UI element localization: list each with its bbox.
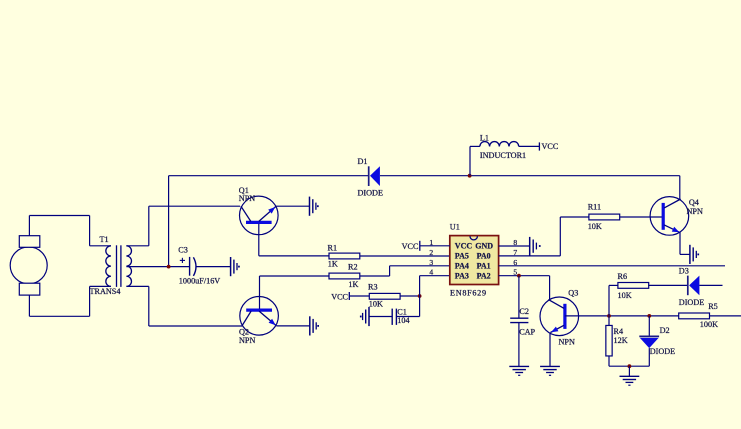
wire U1 pin 6 long line: [499, 265, 725, 267]
power VCC at L1: [539, 142, 558, 151]
transformer T1 TRANS4: [90, 235, 132, 296]
svg-text:Q4: Q4: [689, 198, 699, 207]
motor terminal block bottom: [19, 283, 40, 295]
wire R6 riser: [609, 285, 618, 316]
wire D2 bottom: [648, 348, 650, 366]
svg-text:R2: R2: [348, 262, 358, 271]
transistor Q2 NPN: [239, 276, 278, 345]
wire T1 secondary top to Q1 base line: [126, 206, 240, 246]
svg-text:3: 3: [429, 258, 433, 267]
svg-text:NPN: NPN: [559, 338, 575, 347]
ground earth-style at Q3 emitter: [540, 366, 560, 375]
svg-text:R6: R6: [618, 272, 628, 281]
svg-text:R4: R4: [614, 327, 624, 336]
svg-text:12K: 12K: [614, 336, 628, 345]
IC U1 EN8F629 body: [450, 223, 499, 298]
wire R4 bottom: [609, 356, 649, 366]
svg-text:R11: R11: [588, 203, 601, 212]
wire Q1 base lead to R1: [259, 255, 329, 257]
ground bar-style at U1 pin 8: [530, 237, 541, 256]
svg-text:GND: GND: [475, 242, 493, 251]
wire D2 top: [648, 316, 650, 336]
wire C1 to ground: [369, 316, 392, 318]
wire top rail right of D1: [380, 175, 680, 177]
wire junction riser to U1 pin 4: [420, 276, 450, 296]
wire Q4 emitter to ground: [680, 232, 690, 254]
svg-text:R5: R5: [708, 302, 718, 311]
svg-text:T1: T1: [100, 235, 109, 244]
node L1 junction on top rail: [468, 174, 472, 178]
svg-text:NPN: NPN: [239, 336, 255, 345]
capacitor C3 1000uF/16V: [178, 246, 220, 286]
transistor Q3 NPN: [540, 289, 579, 347]
wire R6 to D3: [648, 284, 688, 286]
wire top rail horizontal: [169, 175, 369, 177]
wire motor bottom to T1 primary bottom: [29, 286, 111, 316]
svg-text:1K: 1K: [348, 280, 358, 289]
diode D3: [679, 267, 704, 308]
svg-text:D1: D1: [358, 157, 368, 166]
svg-text:DIODE: DIODE: [650, 347, 675, 356]
svg-text:PA2: PA2: [477, 271, 491, 280]
svg-text:D2: D2: [660, 326, 670, 335]
node PA2/C2 junction: [517, 274, 521, 278]
node ground tap: [628, 364, 632, 368]
ground bar-style at Q2 emitter: [310, 316, 319, 335]
wire Q3 emitter to ground: [549, 333, 551, 367]
wire top rail riser: [168, 176, 170, 267]
svg-text:VCC: VCC: [402, 242, 419, 251]
wire junction down to C2: [518, 276, 520, 319]
wire R3 to junction: [400, 295, 420, 297]
svg-text:VCC: VCC: [455, 242, 473, 251]
svg-text:U1: U1: [450, 223, 460, 232]
svg-text:NPN: NPN: [687, 207, 703, 216]
ground bar-style at C3: [231, 257, 240, 276]
svg-text:NPN: NPN: [239, 194, 255, 203]
node D2 tap: [647, 314, 651, 318]
svg-text:VCC: VCC: [542, 142, 559, 151]
transistor Q4 NPN: [650, 197, 703, 236]
svg-text:DIODE: DIODE: [679, 298, 704, 307]
wire U1 pin 7 to R11 riser: [499, 217, 561, 256]
diode D1: [358, 157, 383, 197]
svg-text:10K: 10K: [618, 291, 632, 300]
motor M1 (load): [10, 247, 47, 284]
wire motor top to T1 primary top: [29, 216, 111, 246]
wire R5 right: [710, 315, 741, 317]
svg-text:R1: R1: [328, 243, 338, 252]
svg-text:CAP: CAP: [519, 327, 535, 336]
wire Q2 emitter to ground: [276, 325, 310, 327]
svg-text:PA4: PA4: [455, 262, 469, 271]
wire U1 pin 5 to Q3 collector riser: [499, 276, 550, 300]
svg-text:1000uF/16V: 1000uF/16V: [179, 276, 220, 285]
ground bar-style at C1 (left-facing): [360, 307, 369, 326]
wire junction down to C1: [396, 296, 419, 317]
wire Q2 base lead to R2: [260, 275, 330, 277]
ground bar-style at Q4 emitter: [690, 245, 699, 264]
svg-text:D3: D3: [679, 267, 689, 276]
svg-text:100K: 100K: [700, 320, 718, 329]
svg-text:EN8F629: EN8F629: [450, 288, 487, 297]
IC U1 pin names: [455, 242, 494, 281]
svg-text:PA5: PA5: [455, 252, 469, 261]
resistor R3 10K: [368, 283, 400, 309]
svg-text:10K: 10K: [369, 299, 383, 308]
svg-text:L1: L1: [480, 133, 489, 142]
svg-text:INDUCTOR1: INDUCTOR1: [480, 151, 526, 160]
svg-text:4: 4: [429, 268, 433, 277]
svg-text:10K: 10K: [588, 222, 602, 231]
ground earth-style at C2: [509, 366, 529, 375]
node R3/C1/PA3 junction: [418, 294, 422, 298]
wire L1 left to top rail: [470, 146, 480, 175]
motor terminal block top: [19, 236, 40, 248]
resistor R5 100K: [679, 302, 718, 329]
wire R4 riser top: [608, 316, 610, 326]
svg-text:1K: 1K: [328, 259, 338, 268]
wire VCC to R3: [349, 295, 369, 297]
wire C2 to ground: [518, 323, 520, 367]
wire R1 to U1 pin 2: [360, 255, 450, 257]
wire R11 left: [560, 216, 589, 218]
svg-text:PA1: PA1: [477, 262, 491, 271]
capacitor C2 CAP: [510, 307, 535, 337]
resistor R1 1K: [328, 243, 360, 268]
resistor R11 10K: [588, 203, 620, 232]
power VCC at U1 pin 1: [402, 241, 420, 251]
svg-text:VCC: VCC: [331, 292, 348, 301]
wire Q4 collector to top rail: [679, 176, 681, 199]
svg-text:104: 104: [397, 316, 409, 325]
transistor Q1 NPN: [239, 186, 278, 256]
wire U1 pin 8 to ground: [499, 245, 530, 247]
inductor L1 INDUCTOR1: [480, 133, 526, 160]
svg-text:C3: C3: [178, 246, 188, 255]
wire D3 right: [699, 284, 722, 286]
wire Q1 emitter to ground: [276, 205, 310, 207]
svg-text:PA3: PA3: [455, 271, 469, 280]
svg-text:DIODE: DIODE: [358, 189, 383, 198]
svg-text:TRANS4: TRANS4: [90, 287, 121, 296]
ground bar-style at Q1 emitter: [310, 197, 319, 216]
wire R11 to Q4 base: [620, 216, 664, 218]
svg-text:R3: R3: [368, 283, 378, 292]
resistor R2 1K: [329, 262, 360, 289]
svg-text:C2: C2: [519, 307, 529, 316]
IC U1 pin numbers: [429, 238, 517, 277]
wire ground stem: [628, 366, 630, 376]
capacitor C1 104: [392, 308, 409, 325]
diode D2: [639, 326, 675, 356]
svg-text:2: 2: [429, 248, 433, 257]
resistor R6 10K: [618, 272, 649, 300]
svg-text:Q3: Q3: [568, 289, 578, 298]
svg-text:PA0: PA0: [477, 252, 491, 261]
wire Q3 base line to R5: [565, 315, 679, 317]
wire R2 to U1 pin 3: [360, 266, 450, 276]
resistor R4 12K: [606, 325, 628, 356]
wire T1 center tap to C3: [126, 266, 189, 268]
wire VCC to U1 pin 1: [420, 245, 450, 247]
wire L1 right to VCC: [519, 145, 540, 147]
ground earth-style at R4/D2: [620, 376, 640, 385]
wire T1 secondary bottom to Q2 collector line: [126, 286, 242, 326]
node R4/R6 tap: [607, 314, 611, 318]
wire C3 to ground: [197, 266, 231, 268]
power VCC at R3: [331, 292, 349, 301]
node center-tap junction: [167, 265, 171, 269]
